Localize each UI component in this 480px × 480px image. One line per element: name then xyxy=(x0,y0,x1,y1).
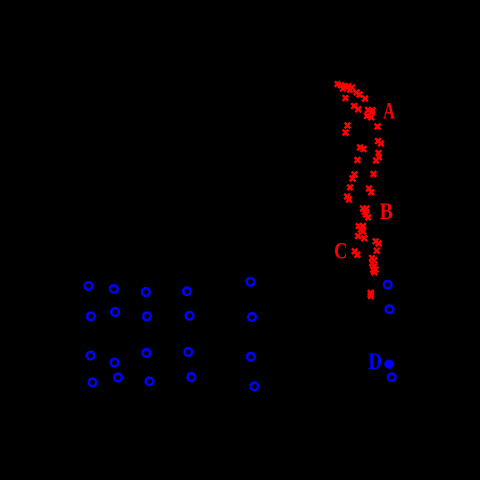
red x scatter: lower cluster xyxy=(352,223,381,299)
blue circles right side xyxy=(384,281,396,381)
blue circle grid: row 1 xyxy=(85,278,255,296)
red x scatter: middle cluster xyxy=(344,138,384,220)
svg-text:B: B xyxy=(380,199,393,225)
svg-text:D: D xyxy=(368,348,382,374)
blue circle grid: row 2 xyxy=(87,308,256,321)
blue filled dot xyxy=(384,360,393,369)
svg-text:A: A xyxy=(383,99,395,124)
blue circle grid: row 3 xyxy=(87,348,255,366)
red x scatter: top cluster xyxy=(335,81,381,135)
blue circle grid: row 4 xyxy=(89,373,258,390)
svg-text:C: C xyxy=(334,238,347,265)
